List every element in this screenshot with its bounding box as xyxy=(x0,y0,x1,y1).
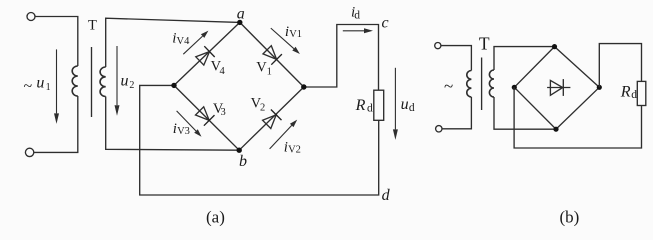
svg-text:d: d xyxy=(409,102,415,114)
svg-text:4: 4 xyxy=(220,66,226,77)
svg-text:d: d xyxy=(367,102,373,114)
svg-text:a: a xyxy=(237,5,245,22)
svg-text:3: 3 xyxy=(221,107,226,118)
svg-text:b: b xyxy=(239,153,247,170)
svg-text:d: d xyxy=(382,187,391,204)
svg-text:1: 1 xyxy=(46,82,51,93)
svg-text:1: 1 xyxy=(267,66,272,77)
svg-text:d: d xyxy=(631,89,637,101)
svg-text:u: u xyxy=(36,75,44,92)
svg-text:(b): (b) xyxy=(560,208,580,227)
svg-text:u: u xyxy=(121,73,129,90)
svg-text:d: d xyxy=(354,9,360,21)
svg-text:R: R xyxy=(355,97,366,114)
svg-text:u: u xyxy=(401,96,409,113)
svg-text:V4: V4 xyxy=(177,36,191,47)
svg-text:V3: V3 xyxy=(177,126,190,137)
svg-text:~: ~ xyxy=(444,76,453,95)
svg-text:2: 2 xyxy=(260,103,265,114)
svg-text:V: V xyxy=(256,59,267,75)
svg-text:R: R xyxy=(620,84,631,101)
svg-text:2: 2 xyxy=(129,80,134,91)
svg-text:V1: V1 xyxy=(289,29,302,40)
svg-text:T: T xyxy=(88,18,97,34)
svg-text:T: T xyxy=(479,34,490,54)
svg-text:(a): (a) xyxy=(206,208,225,227)
svg-text:V2: V2 xyxy=(288,145,301,156)
svg-text:c: c xyxy=(382,15,389,32)
svg-text:~: ~ xyxy=(24,78,33,95)
